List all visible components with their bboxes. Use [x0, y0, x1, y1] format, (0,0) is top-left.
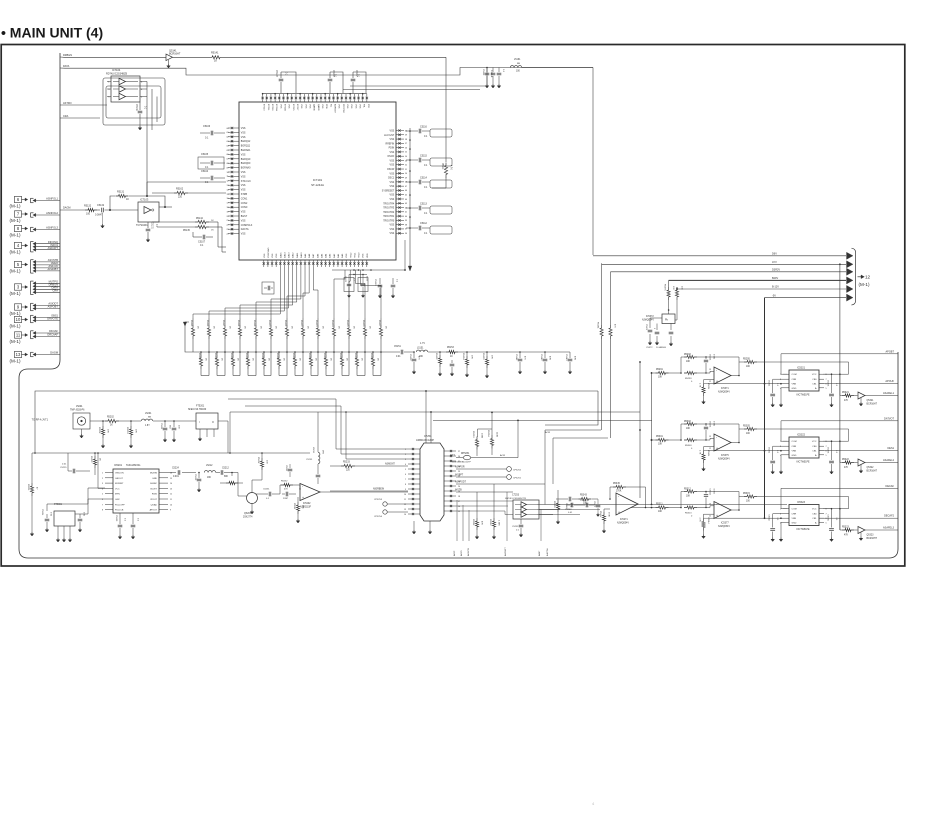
svg-text:16: 16: [170, 473, 172, 475]
svg-text:15: 15: [227, 194, 229, 196]
resistor R5123 1K: [317, 318, 319, 325]
resistor R5203 27K: [130, 420, 132, 422]
svg-text:VSS: VSS: [279, 104, 281, 109]
svg-text:VSS: VSS: [390, 233, 395, 235]
svg-text:09: 09: [227, 167, 229, 169]
svg-text:VSS: VSS: [390, 182, 395, 184]
series resistor R5293 0: [684, 371, 697, 374]
feedback resistor R5292 10K: [681, 357, 684, 373]
IC7251 left pin 10: [408, 493, 420, 495]
resistor R5144 1K: [152, 221, 195, 223]
svg-text:C5213: C5213: [194, 474, 196, 481]
svg-text:C5371: C5371: [645, 324, 647, 331]
svg-text:9: 9: [405, 489, 406, 491]
svg-text:B-DET: B-DET: [150, 488, 157, 490]
output resistor R5315 100: [739, 496, 744, 498]
capacitor C5102 box: [358, 278, 368, 292]
svg-text:40: 40: [405, 216, 407, 218]
svg-text:DECAF: DECAF: [886, 485, 895, 488]
svg-text:7: 7: [826, 379, 827, 381]
svg-text:R5125: R5125: [346, 320, 348, 327]
wire FT5201 out: [218, 421, 228, 453]
svg-text:ASAFEL2: ASAFEL2: [883, 459, 895, 462]
svg-text:BGST: BGST: [241, 216, 248, 218]
op-amp IC5202 NJM2115F: [300, 484, 320, 501]
resistor R5141 1K: [209, 56, 223, 59]
connector 13 (M-1): [15, 351, 22, 357]
svg-text:4: 4: [405, 464, 406, 466]
svg-text:38: 38: [405, 224, 407, 226]
IC7251 left pin 12: [408, 503, 420, 505]
svg-text:PDIN: PDIN: [389, 148, 395, 150]
IC7251 right pin 15: [444, 510, 456, 512]
output resistor R5295 100: [739, 361, 744, 363]
svg-text:C5235: C5235: [306, 459, 313, 461]
resistor R5162 220: [152, 192, 174, 194]
svg-text:ASNFOL3: ASNFOL3: [46, 226, 58, 230]
svg-text:ASNFOL1: ASNFOL1: [46, 197, 58, 201]
transistor Q5201 2SK2774: [247, 493, 258, 504]
svg-text:NJMQ054V: NJMQ054V: [642, 320, 654, 322]
svg-text:R5141: R5141: [211, 52, 219, 55]
svg-text:R5135: R5135: [308, 353, 310, 360]
IC7251 right pin 16: [444, 505, 456, 507]
svg-text:ASAPODT: ASAPODT: [455, 481, 467, 484]
wire ASF-CK: [33, 266, 36, 269]
VCC row dots: [831, 508, 833, 510]
svg-text:R5303: R5303: [685, 445, 692, 447]
svg-text:B-12V: B-12V: [772, 286, 779, 289]
svg-text:6: 6: [405, 474, 406, 476]
wire plus input to VRB row: [704, 383, 711, 385]
svg-text:PCB: PCB: [325, 104, 327, 109]
svg-text:VSS: VSS: [390, 199, 395, 201]
wire DRVOTE: [33, 319, 36, 322]
resistor R5124 1K: [333, 318, 335, 325]
resistor R5134 1K: [294, 352, 296, 355]
op-amp IC5375 NJMQ054V: [714, 434, 731, 451]
svg-text:C5105: C5105: [201, 153, 209, 156]
wire A50RBEIN: [330, 490, 408, 492]
resistor R5153 10: [446, 350, 458, 353]
wire CRA: [33, 291, 36, 294]
buffer Q5322 BCR16HT: [858, 459, 865, 466]
svg-text:NJMQ054V: NJMQ054V: [718, 526, 730, 528]
svg-text:C5114: C5114: [420, 177, 428, 180]
svg-text:BGRQ10: BGRQ10: [241, 159, 251, 161]
ladder U wire 2: [233, 375, 240, 377]
svg-text:00: 00: [227, 128, 229, 130]
svg-text:AISTB: AISTB: [455, 489, 462, 492]
ladder U wire 0: [201, 375, 209, 377]
wires IC7251 to IC7253 buffers: [456, 500, 513, 502]
resistor R5120 1K: [270, 318, 272, 325]
svg-text:QAMR: QAMR: [317, 104, 320, 111]
svg-text:R5181: R5181: [597, 322, 599, 329]
svg-text:220P: 220P: [283, 498, 289, 500]
capacitor C5141 470: [519, 352, 521, 358]
svg-text:VSS: VSS: [363, 253, 365, 258]
svg-text:CON0: CON0: [241, 207, 248, 209]
capacitor C5132 0.0047: [101, 208, 103, 213]
svg-text:STRB: STRB: [241, 194, 248, 196]
svg-text:1: 1: [780, 441, 781, 443]
capacitor C5262 0.01: [566, 504, 570, 506]
wire INFO1: [33, 245, 36, 248]
svg-text:20: 20: [458, 486, 460, 488]
svg-text:CRR: CRR: [792, 514, 797, 516]
series resistor R5313 0: [684, 506, 697, 509]
resistor R5254 110B: [491, 429, 493, 436]
resistor R5253 100B: [477, 431, 479, 437]
svg-text:R5115: R5115: [190, 320, 192, 327]
capacitor C5204: [46, 514, 48, 518]
svg-text:VCC: VCC: [812, 374, 817, 376]
svg-text:R5304: R5304: [707, 450, 709, 457]
IC7251 right pin 18: [444, 495, 456, 497]
capacitor C5342: [568, 497, 570, 502]
svg-text:GND: GND: [792, 522, 797, 524]
connector 12 bracket: [852, 248, 856, 305]
svg-text:R5261: R5261: [472, 519, 474, 526]
VRB row to -5V rail: [710, 517, 783, 519]
capacitor C5326 0.1 right: [831, 441, 833, 460]
resistor R5222 1K: [94, 453, 96, 456]
svg-text:R5233: R5233: [343, 462, 350, 464]
wire D3R2V: [611, 271, 847, 273]
svg-text:R5137: R5137: [339, 353, 341, 360]
svg-text:23: 23: [227, 229, 229, 231]
wire DAGM internal: [60, 209, 85, 211]
svg-text:2: 2: [780, 514, 781, 516]
svg-text:R5305: R5305: [743, 426, 750, 428]
svg-text:R5128: R5128: [198, 353, 200, 360]
capacitor C5117 0.1: [353, 72, 366, 93]
inductor L5231: [317, 448, 319, 452]
svg-text:VCC: VCC: [812, 509, 817, 511]
svg-text:(M-1): (M-1): [10, 359, 21, 364]
wire B29V vertical: [668, 280, 670, 287]
svg-text:R5375: R5375: [664, 284, 666, 291]
wire plus input to VRB row: [704, 517, 711, 519]
svg-text:C5142: C5142: [540, 354, 542, 361]
IC7251 left pin 4: [408, 463, 420, 465]
svg-text:VSS: VSS: [288, 104, 290, 109]
svg-text:VCC: VCC: [812, 441, 817, 443]
svg-text:C5143: C5143: [565, 354, 567, 361]
svg-text:10K: 10K: [686, 428, 691, 430]
svg-text:C7253: C7253: [512, 494, 520, 497]
IC IC7101 ST-1244A: [239, 102, 396, 260]
svg-text:COMPCLK: COMPCLK: [241, 225, 253, 227]
svg-text:BT01T: BT01T: [296, 104, 298, 111]
wire -5V: [765, 297, 847, 299]
IC7251 right pin 24: [444, 465, 456, 467]
svg-text:(M-1): (M-1): [859, 282, 870, 287]
svg-text:0.001: 0.001: [713, 489, 715, 495]
resistor R5231 56K: [297, 497, 299, 502]
ladder U wire 7: [311, 375, 318, 377]
capacitor C5234 1 50V: [289, 464, 291, 468]
svg-text:BCR16HT: BCR16HT: [867, 538, 878, 540]
svg-text:(M-1): (M-1): [10, 218, 21, 223]
svg-text:VSS: VSS: [390, 225, 395, 227]
connector 10 (M-1): [15, 316, 22, 322]
wire DRBGN to R5141 and beyond: [172, 56, 209, 58]
svg-text:DA13: DA13: [288, 252, 291, 258]
svg-text:AIOO: AIOO: [460, 550, 463, 556]
wire ASNFOL1: [33, 199, 36, 202]
svg-text:VSS: VSS: [321, 104, 323, 109]
feedback capacitor C5333 0.001: [705, 492, 707, 494]
connector 11 (M-1): [15, 332, 22, 338]
svg-text:GROUT: GROUT: [115, 478, 124, 480]
svg-text:L5151: L5151: [417, 348, 424, 350]
svg-text:7: 7: [826, 514, 827, 516]
wires from IC7104 outputs: [146, 82, 148, 197]
svg-text:(M-1): (M-1): [10, 204, 21, 209]
wire ASNFOL3: [33, 228, 36, 231]
svg-text:RP5251: RP5251: [461, 453, 470, 455]
IC7251 left pin 7: [408, 478, 420, 480]
svg-text:GND: GND: [152, 478, 157, 480]
svg-text:AFOUT: AFOUT: [150, 509, 158, 512]
svg-text:KICTW51PE: KICTW51PE: [796, 462, 809, 464]
svg-text:GND: GND: [792, 455, 797, 457]
svg-text:100B: 100B: [481, 433, 483, 439]
wire AISTB: [456, 491, 513, 493]
svg-text:5: 5: [102, 494, 103, 496]
svg-text:C5234: C5234: [285, 465, 287, 472]
svg-text:BT01L: BT01L: [267, 104, 269, 111]
wire ASFOBT: [33, 307, 36, 310]
wire B-12V: [677, 288, 846, 290]
svg-text:OSCW: OSCW: [387, 169, 395, 171]
resistor R5202 1K: [105, 419, 119, 422]
resistor R5344 270K: [604, 508, 610, 510]
svg-text:02: 02: [227, 137, 229, 139]
svg-text:R5343: R5343: [580, 495, 587, 497]
svg-text:15: 15: [170, 478, 172, 480]
wire D3R2V vertical: [610, 272, 612, 325]
svg-text:AYV: AYV: [772, 261, 777, 264]
svg-text:SFECV10.7MA50: SFECV10.7MA50: [188, 408, 207, 411]
VRB row to -5V rail: [710, 383, 783, 385]
IC7101 left pins: [228, 127, 239, 129]
svg-text:ASRGDT: ASRGDT: [333, 104, 336, 114]
svg-text:ASNFOL2: ASNFOL2: [46, 211, 58, 215]
svg-text:1: 1: [780, 374, 781, 376]
svg-text:VSS: VSS: [300, 104, 302, 109]
capacitor C5107 0.1: [193, 236, 202, 238]
svg-text:CON2: CON2: [241, 203, 248, 205]
wire AISBPT to CP5251: [456, 476, 506, 478]
svg-text:VSS: VSS: [390, 139, 395, 141]
resistor R5182 on D3R2V: [609, 325, 612, 339]
svg-text:VSS: VSS: [390, 229, 395, 231]
svg-text:VCC: VCC: [115, 488, 120, 490]
svg-text:49: 49: [405, 177, 407, 179]
resistor R5119 1K: [255, 318, 257, 325]
svg-text:DA15: DA15: [279, 252, 282, 258]
svg-text:05: 05: [227, 150, 229, 152]
wire AYV: [602, 263, 846, 265]
wire Q5201 out: [256, 493, 268, 495]
resistor R5233 220: [330, 465, 341, 467]
svg-text:R5232: R5232: [281, 481, 288, 483]
svg-text:L5201: L5201: [145, 413, 152, 415]
connector 5 (M-1): [15, 261, 22, 267]
exit wire DES1: [819, 450, 898, 452]
svg-text:R5144: R5144: [196, 218, 203, 220]
resistor R5370 100: [676, 287, 678, 289]
svg-text:TC7S04FU: TC7S04FU: [136, 224, 148, 227]
svg-text:CP5254: CP5254: [374, 516, 383, 518]
rails from power area: [545, 430, 601, 505]
wires from IC7253 to channels: [537, 504, 787, 506]
svg-text:R5118: R5118: [237, 320, 239, 327]
long wire y420: [433, 419, 652, 421]
GND pin wire to ground: [781, 522, 783, 537]
svg-text:8: 8: [826, 374, 827, 376]
svg-text:R5314: R5314: [707, 518, 709, 525]
svg-text:DECAF2: DECAF2: [884, 515, 894, 518]
capacitor C5153: [451, 360, 453, 363]
svg-text:VSS: VSS: [346, 104, 348, 109]
svg-text:0.001: 0.001: [713, 354, 715, 360]
capacitor C5201 680: [164, 420, 166, 422]
svg-text:47B: 47B: [549, 356, 551, 360]
svg-text:+: +: [716, 447, 718, 451]
svg-text:RREFIN: RREFIN: [386, 143, 395, 145]
svg-text:(M-1): (M-1): [10, 324, 21, 329]
svg-text:C5201: C5201: [160, 423, 162, 430]
svg-text:C5113: C5113: [420, 203, 428, 206]
svg-text:MUXIN: MUXIN: [150, 473, 157, 475]
capacitor C5109: [362, 275, 364, 284]
svg-text:GNC: GNC: [115, 499, 120, 501]
svg-text:C5112: C5112: [420, 222, 428, 225]
svg-text:LLCVLNT: LLCVLNT: [384, 135, 395, 137]
svg-text:TA31136FNG: TA31136FNG: [126, 464, 141, 467]
IC7251 left pin 2: [408, 453, 420, 455]
svg-text:R5131: R5131: [117, 191, 125, 194]
svg-text:36: 36: [405, 233, 407, 235]
IC5201 left pin bus: [97, 453, 99, 488]
connector 8 (M-1): [15, 225, 22, 231]
svg-text:ASAFEL1: ASAFEL1: [883, 392, 895, 395]
capacitor C5371 1: [650, 317, 662, 319]
svg-text:0.001: 0.001: [173, 476, 179, 478]
svg-text:6: 6: [826, 518, 827, 520]
svg-text:DACTA: DACTA: [241, 228, 249, 231]
svg-text:(M-1): (M-1): [10, 339, 21, 344]
test point CP5254: [383, 510, 387, 514]
svg-text:POTPD2: POTPD2: [342, 104, 344, 114]
svg-text:ASMONT: ASMONT: [385, 463, 395, 466]
svg-text:20: 20: [227, 216, 229, 218]
svg-text:R5203: R5203: [126, 427, 128, 434]
resistor R5227 0: [226, 481, 238, 484]
wire from IC top to filter: [350, 85, 487, 87]
svg-text:J5201: J5201: [76, 405, 83, 408]
svg-text:0.001: 0.001: [713, 421, 715, 427]
svg-text:CON1: CON1: [241, 198, 248, 200]
svg-text:11: 11: [170, 499, 172, 501]
capacitor C5374 10 HRB-B: [670, 324, 672, 331]
capacitor C5209 0.1: [119, 513, 121, 524]
svg-text:SYSCLAO: SYSCLAO: [267, 247, 270, 258]
resistor R5228 100: [231, 472, 233, 474]
exit wire ASAFEL2: [865, 462, 898, 464]
svg-text:D6V: D6V: [772, 253, 777, 256]
svg-text:58: 58: [405, 139, 407, 141]
svg-text:R5323: R5323: [842, 527, 849, 529]
IC7251 right pin 26: [444, 455, 456, 457]
svg-text:VSS: VSS: [276, 253, 278, 258]
svg-text:D3R2V: D3R2V: [772, 269, 780, 272]
connector 7 (M-1): [15, 211, 22, 217]
svg-text:AITY: AITY: [450, 454, 456, 457]
svg-text:2: 2: [780, 446, 781, 448]
resistor R5135 1K: [310, 352, 312, 355]
svg-text:R5322: R5322: [842, 459, 849, 461]
svg-text:RD74LVC2G34BZB: RD74LVC2G34BZB: [106, 73, 127, 76]
resistor R5139 1K: [372, 352, 374, 355]
svg-text:C5251: C5251: [512, 526, 519, 528]
VRB row to -5V rail: [710, 450, 783, 452]
wire OBS1: [33, 316, 36, 319]
svg-text:R5291: R5291: [656, 369, 663, 371]
input resistor R5301 10K: [656, 438, 669, 441]
wire AYV vertical: [601, 263, 603, 325]
svg-text:IC5375: IC5375: [721, 454, 729, 457]
svg-text:110B: 110B: [496, 432, 498, 437]
wire y182 to IC7101: [146, 182, 148, 196]
svg-text:47K: 47K: [844, 534, 849, 536]
svg-text:Q5323: Q5323: [867, 535, 875, 537]
svg-text:11: 11: [16, 333, 21, 338]
svg-text:IC5372: IC5372: [646, 315, 654, 318]
svg-text:01: 01: [227, 132, 229, 134]
wire ASFOPT: [33, 248, 36, 251]
svg-text:C5132: C5132: [97, 204, 105, 207]
wire MUTPO: [33, 282, 36, 285]
svg-text:1: 1: [780, 509, 781, 511]
svg-text:FT5201: FT5201: [196, 405, 205, 408]
svg-text:VSS: VSS: [308, 104, 310, 109]
svg-text:QAMB: QAMB: [313, 104, 316, 111]
svg-text:R5301: R5301: [656, 436, 663, 438]
wire y412 to ch input rail: [639, 412, 641, 498]
svg-text:R5119: R5119: [253, 320, 255, 327]
svg-text:1K: 1K: [110, 425, 113, 427]
svg-text:52: 52: [405, 165, 407, 167]
wire B-12V vertical: [676, 288, 678, 290]
connector 12 (M-1): [858, 276, 862, 278]
svg-text:BGRQ12: BGRQ12: [241, 141, 251, 143]
svg-text:R5138: R5138: [354, 353, 356, 360]
svg-text:AISBPT: AISBPT: [455, 474, 464, 477]
array top rail: [193, 351, 395, 353]
svg-text:R5315: R5315: [743, 493, 750, 495]
capacitor C5336 0.1 right: [831, 509, 833, 528]
CRR wire and capacitor 0.1 left: [773, 379, 783, 393]
IC7251 left pin 11: [408, 498, 420, 500]
svg-text:R5133: R5133: [276, 353, 278, 360]
svg-text:COM: COM: [792, 509, 797, 511]
feedback resistor R5302 10K: [681, 424, 684, 440]
